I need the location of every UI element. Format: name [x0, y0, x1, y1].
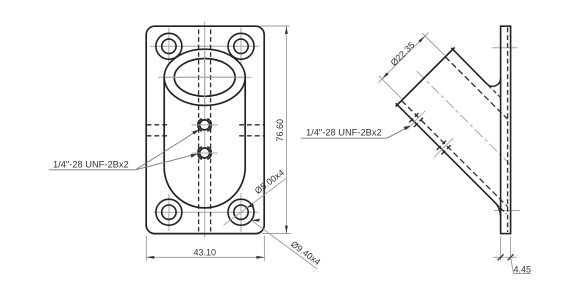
- thread hole side 2 dashes: [437, 141, 446, 150]
- extension line right 43.10: [263, 236, 265, 261]
- centerline bottom-right hole vertical: [240, 193, 242, 232]
- tick left 4.45: [498, 254, 504, 260]
- dimension line 43.10: [146, 256, 264, 258]
- hidden line bore upper: [445, 57, 507, 119]
- extension line bottom 76.60: [262, 233, 291, 235]
- leader 4.45: [511, 257, 531, 273]
- corner hole bottom-left: [156, 199, 182, 225]
- corner hole top-right: [228, 33, 254, 59]
- extension line lower 22.35: [379, 76, 402, 99]
- centerline bottom hole row: [153, 211, 258, 213]
- dimension line 22.35: [379, 33, 429, 83]
- arrow diameter 9.40x4: [251, 219, 260, 222]
- arrow diameter 5.00x4: [247, 203, 254, 208]
- corner hole bottom-right: [228, 199, 254, 225]
- thread hole side 2 centerline: [434, 138, 453, 157]
- tube silhouette right vertical: [244, 77, 246, 167]
- centerline tube axis: [417, 71, 510, 164]
- tube top edge: [451, 48, 500, 86]
- hidden line plate inner dashed: [507, 28, 509, 233]
- hidden line thread bore left vertical: [198, 29, 200, 231]
- boss outer ellipse: [164, 49, 245, 105]
- centerline side bottom hole row: [494, 210, 519, 212]
- centerline top-right hole vertical: [240, 27, 242, 65]
- extension line left 4.45: [500, 237, 502, 261]
- dimension line 4.45: [493, 256, 517, 258]
- label underline UNF front: [49, 169, 136, 171]
- tube silhouette left vertical: [163, 77, 165, 167]
- arrow 76.60 top: [285, 26, 288, 34]
- hidden line tube bottom behind fillet: [496, 204, 506, 214]
- leader UNF label to hole 2: [136, 154, 195, 169]
- extension line left 43.10: [145, 236, 147, 261]
- dimension 43.10: [146, 236, 264, 261]
- label underline UNF side: [301, 137, 387, 139]
- hidden line tube top behind fillet: [488, 85, 500, 97]
- centerline top hole row: [150, 45, 260, 47]
- arrow 43.10 left: [146, 256, 154, 259]
- svg-text:76.60: 76.60: [275, 119, 285, 142]
- centerline ellipse horizontal: [158, 76, 252, 78]
- svg-text:43.10: 43.10: [194, 247, 217, 257]
- plate outline front: [146, 26, 264, 233]
- arrow 43.10 right: [256, 256, 264, 259]
- arrow 22.35 upper: [418, 36, 425, 43]
- dimension 4.45: [493, 237, 531, 274]
- tube end face: [396, 48, 455, 107]
- hidden line cross hole lower left: [147, 135, 170, 137]
- centerline side top hole row: [492, 47, 518, 49]
- arrow 76.60 bottom: [285, 226, 288, 234]
- threaded hole 2: [191, 147, 217, 160]
- extension line upper 22.35: [422, 33, 445, 55]
- leader diameter 5.00x4: [224, 178, 287, 226]
- svg-text:1/4"-28 UNF-2Bx2: 1/4"-28 UNF-2Bx2: [306, 128, 382, 138]
- thread hole side 1 centerline: [407, 111, 426, 130]
- centerline ellipse vertical inner: [204, 49, 206, 104]
- tube bottom edge: [396, 103, 501, 216]
- tube silhouette bottom arc: [164, 167, 245, 208]
- centerline bottom-left hole vertical: [168, 193, 170, 231]
- hidden line cross hole upper right: [239, 124, 264, 126]
- svg-text:1/4"-28 UNF-2Bx2: 1/4"-28 UNF-2Bx2: [53, 159, 129, 169]
- hidden line thread bore right vertical: [210, 29, 212, 231]
- plate outline side: [501, 26, 511, 233]
- threaded hole 1: [192, 119, 218, 132]
- boss inner ellipse bore: [174, 58, 235, 96]
- centerline top-left hole vertical: [168, 27, 170, 65]
- extension line top 76.60: [261, 25, 290, 27]
- dimension 22.35: [379, 33, 445, 99]
- hidden line cross hole lower right: [239, 135, 264, 137]
- leader UNF label side: [387, 127, 408, 138]
- dimension 76.60: [260, 26, 291, 234]
- hidden line cross hole upper left: [147, 124, 170, 126]
- hidden line bore lower: [401, 101, 507, 207]
- corner hole top-left: [156, 33, 182, 59]
- arrow 22.35 lower: [382, 72, 389, 79]
- leader UNF label to hole 1: [136, 131, 197, 170]
- thread hole side 1 dashes: [409, 113, 418, 122]
- extension line right 4.45: [510, 237, 512, 261]
- leader diameter 9.40x4: [251, 220, 317, 269]
- svg-text:4.45: 4.45: [513, 264, 531, 274]
- dimension line 76.60: [285, 26, 287, 234]
- centerline vertical part axis: [204, 21, 206, 237]
- tick right 4.45: [508, 254, 514, 260]
- centerline ellipse horizontal inner: [165, 76, 246, 78]
